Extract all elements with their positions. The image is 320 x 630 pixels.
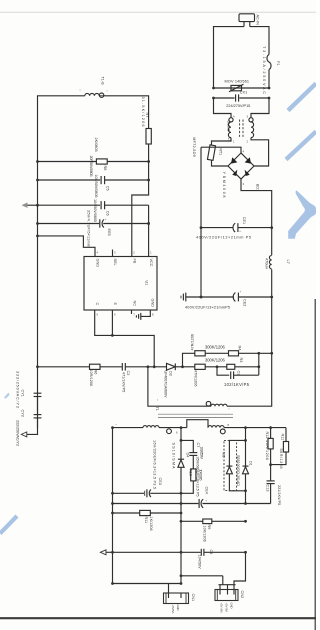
capacitor EE5 row bbox=[36, 210, 150, 247]
svg-text:AC-IN: AC-IN bbox=[256, 15, 260, 26]
svg-text:SEL: SEL bbox=[113, 259, 117, 266]
watermark blue diagonal bottom-left bbox=[0, 516, 17, 534]
svg-text:6: 6 bbox=[176, 431, 178, 435]
wire D4 branch bbox=[180, 428, 182, 460]
connector CN1 bbox=[164, 584, 196, 614]
ground pin8 bbox=[136, 310, 150, 320]
svg-text:UF4007/1A/600V: UF4007/1A/600V bbox=[163, 371, 167, 398]
watermark blue wedge small bbox=[4, 393, 10, 399]
wire DC left bus bbox=[200, 147, 202, 297]
wire switch row bbox=[36, 365, 89, 368]
svg-text:CE2: CE2 bbox=[243, 299, 247, 306]
connector AC plug bbox=[239, 14, 260, 27]
capacitor C2 bbox=[122, 363, 167, 392]
wire plug right to fuse bbox=[250, 27, 269, 55]
wire N rail down to choke bbox=[251, 98, 269, 118]
svg-text:SB5100/DO-201AD: SB5100/DO-201AD bbox=[236, 455, 240, 486]
svg-text:GND: GND bbox=[176, 605, 180, 611]
svg-text:400V/22UF/12×21mm P5: 400V/22UF/12×21mm P5 bbox=[196, 236, 251, 240]
svg-text:F1: F1 bbox=[276, 61, 280, 65]
resistor R8 row bbox=[38, 138, 149, 177]
svg-text:300K/1206: 300K/1206 bbox=[205, 357, 226, 362]
svg-text:D4: D4 bbox=[185, 453, 189, 458]
svg-text:NC: NC bbox=[132, 301, 136, 307]
page top rule bbox=[0, 11, 316, 13]
bridge rectifier BD1 bbox=[222, 150, 259, 198]
transformer T1 secondary winding bbox=[113, 420, 287, 435]
resistor R11 56R branch bbox=[269, 428, 288, 469]
svg-text:RT1: RT1 bbox=[219, 148, 223, 155]
page right edge rule bbox=[314, 299, 316, 630]
ground arrow control bbox=[22, 203, 38, 208]
wire fuse to MOV row bbox=[268, 70, 270, 89]
wire right rail to primary bbox=[227, 297, 272, 406]
capacitor CX1 row bbox=[212, 91, 270, 108]
svg-text:NC: NC bbox=[221, 452, 225, 458]
svg-text:2: 2 bbox=[247, 140, 249, 144]
transformer T1-B aux winding bbox=[80, 77, 108, 98]
svg-text:*: * bbox=[80, 89, 81, 93]
svg-text:C7: C7 bbox=[196, 443, 200, 448]
svg-text:56R/1206: 56R/1206 bbox=[279, 449, 283, 469]
svg-text:E: E bbox=[113, 303, 117, 306]
svg-text:4: 4 bbox=[233, 115, 235, 119]
wire CN2 feeds bbox=[180, 552, 246, 589]
svg-text:+: + bbox=[205, 500, 207, 503]
connector CN2 bbox=[215, 590, 244, 614]
svg-text:1: 1 bbox=[233, 140, 235, 144]
watermark blue diagonal 1 bbox=[288, 84, 316, 111]
svg-text:CE1: CE1 bbox=[242, 217, 246, 224]
svg-text:+: + bbox=[105, 218, 107, 221]
svg-text:25V/4.7UF/5×11mm: 25V/4.7UF/5×11mm bbox=[86, 210, 90, 247]
svg-text:8: 8 bbox=[152, 313, 154, 317]
page bottom rule bbox=[0, 617, 316, 619]
svg-text:CE4: CE4 bbox=[205, 487, 209, 494]
thermistor RT1 bbox=[192, 137, 222, 160]
svg-text:CE3: CE3 bbox=[158, 478, 162, 485]
wire RT1 to bridge left corner bbox=[212, 160, 229, 166]
wire aux right to R7 bbox=[104, 96, 149, 129]
svg-text:3: 3 bbox=[247, 115, 249, 119]
svg-text:GND: GND bbox=[230, 603, 234, 609]
svg-text:47R/1206: 47R/1206 bbox=[191, 334, 195, 350]
svg-text:104/50V/0805: 104/50V/0805 bbox=[94, 175, 98, 198]
pin7 NC stub bbox=[131, 310, 133, 314]
diode D4 bbox=[172, 443, 190, 584]
svg-text:MF72-5D9: MF72-5D9 bbox=[192, 137, 196, 157]
svg-text:MOV 14D561: MOV 14D561 bbox=[225, 79, 250, 83]
ground arrow output + capacitor C4 row bbox=[100, 549, 247, 569]
resistor R11 1K row bbox=[111, 510, 182, 530]
capacitor CE1 row bbox=[196, 217, 273, 240]
transformer T1 core bbox=[158, 413, 233, 415]
svg-text:222/250VAC/Y2: 222/250VAC/Y2 bbox=[15, 420, 19, 446]
capacitor C6 row bbox=[36, 199, 149, 222]
svg-text:35V/680UF/10×13.5 P5: 35V/680UF/10×13.5 P5 bbox=[195, 457, 199, 497]
resistor R7 bbox=[141, 97, 151, 145]
svg-text:R12: R12 bbox=[265, 432, 269, 439]
node secondary rail junctions bbox=[111, 426, 272, 429]
svg-text:16V/220UF/6.3×13.5 P3.5: 16V/220UF/6.3×13.5 P3.5 bbox=[153, 440, 157, 489]
wire aux left to left bus bbox=[38, 96, 85, 428]
svg-text:*: * bbox=[157, 399, 158, 403]
svg-text:+5V/5A: +5V/5A bbox=[171, 605, 175, 614]
svg-text:D1: D1 bbox=[249, 461, 253, 466]
svg-text:6: 6 bbox=[114, 313, 116, 317]
capacitor CE4 row bbox=[111, 457, 271, 509]
wire choke left bottom to RT1 bbox=[212, 138, 232, 145]
svg-text:4: 4 bbox=[97, 251, 99, 255]
svg-text:400V/22UF/13×21mmP5: 400V/22UF/13×21mmP5 bbox=[185, 305, 230, 309]
node row1 junctions bbox=[36, 160, 39, 163]
svg-text:YBM4008: YBM4008 bbox=[222, 172, 226, 198]
svg-text:C: C bbox=[95, 303, 99, 306]
capacitor C13 bbox=[265, 465, 281, 506]
svg-text:*: * bbox=[116, 423, 117, 427]
wire choke right bottom to bridge right corner bbox=[251, 138, 269, 166]
svg-text:R11: R11 bbox=[144, 517, 148, 524]
capacitor C5 row bbox=[36, 175, 150, 198]
svg-text:471/1KV/P5: 471/1KV/P5 bbox=[122, 372, 126, 392]
svg-text:+: + bbox=[240, 290, 242, 293]
svg-text:R4: R4 bbox=[238, 346, 242, 351]
svg-text:CX1: CX1 bbox=[240, 91, 247, 95]
svg-text:224/275V/P15: 224/275V/P15 bbox=[226, 104, 250, 108]
svg-text:5: 5 bbox=[97, 313, 99, 317]
capacitor CE3 row bbox=[111, 440, 182, 497]
svg-text:1K/1206: 1K/1206 bbox=[149, 517, 153, 531]
svg-text:R7: R7 bbox=[145, 113, 149, 118]
svg-text:CN1: CN1 bbox=[191, 594, 195, 602]
svg-text:1: 1 bbox=[150, 251, 152, 255]
capacitor C7 + resistor R10 snubber bbox=[181, 440, 204, 493]
svg-text:10R/1206: 10R/1206 bbox=[89, 370, 93, 386]
watermark blue diagonal 2 bbox=[286, 132, 316, 160]
IC U1 bbox=[84, 250, 157, 317]
svg-text:470uH: 470uH bbox=[264, 258, 268, 269]
svg-text:C13: C13 bbox=[265, 485, 269, 492]
svg-text:U1: U1 bbox=[145, 281, 149, 286]
resistor R6 bbox=[89, 364, 122, 386]
capacitor CY1 CY2 chain bbox=[15, 371, 41, 446]
svg-text:56R/1206: 56R/1206 bbox=[265, 440, 269, 460]
svg-text:3: 3 bbox=[114, 251, 116, 255]
svg-text:300K/1206: 300K/1206 bbox=[205, 345, 226, 350]
svg-text:C6: C6 bbox=[105, 211, 109, 216]
svg-text:UU9.8: UU9.8 bbox=[227, 121, 231, 132]
svg-text:2: 2 bbox=[133, 251, 135, 255]
svg-text:3: 3 bbox=[243, 182, 245, 186]
svg-text:C2: C2 bbox=[126, 371, 130, 376]
svg-text:*: * bbox=[229, 408, 230, 412]
svg-text:104/50V: 104/50V bbox=[198, 555, 202, 570]
watermark blue chevron bbox=[288, 190, 316, 239]
wire to primary left bbox=[148, 367, 211, 406]
inductor L1 common-mode choke bbox=[227, 115, 254, 144]
resistor R9 10K row bbox=[180, 519, 247, 542]
wire L rail down to choke bbox=[214, 98, 232, 118]
svg-text:31.5K/1206: 31.5K/1206 bbox=[141, 97, 145, 127]
svg-text:D2: D2 bbox=[169, 371, 173, 376]
node snubber-rail junction bbox=[270, 352, 273, 355]
diode D2 bbox=[163, 363, 184, 398]
svg-text:C4: C4 bbox=[209, 550, 213, 555]
snubber bottom branch R3 C3 bbox=[183, 353, 261, 387]
svg-text:L7: L7 bbox=[286, 260, 290, 264]
svg-text:R10: R10 bbox=[189, 469, 193, 476]
node switch row junctions bbox=[147, 365, 150, 368]
transformer T1 primary winding bbox=[155, 399, 230, 412]
wire bridge bottom corner to right rail bbox=[241, 179, 272, 228]
zener clamp D5 D1 bbox=[221, 428, 252, 504]
svg-text:+: + bbox=[239, 230, 241, 233]
svg-text:102/1KV/P5: 102/1KV/P5 bbox=[224, 382, 250, 387]
wire pin5 pin6 to switch node bbox=[95, 310, 155, 367]
svg-text:221/1KV/P5: 221/1KV/P5 bbox=[277, 485, 281, 505]
wire R7 to FB net bbox=[132, 144, 149, 257]
inductor L7 on right rail bbox=[264, 228, 290, 297]
svg-text:CY1: CY1 bbox=[21, 390, 25, 397]
svg-text:333/250VAC/Y2: 333/250VAC/Y2 bbox=[15, 371, 19, 408]
svg-text:*: * bbox=[107, 90, 108, 94]
svg-text:104/50V/0805: 104/50V/0805 bbox=[93, 199, 97, 222]
svg-text:+5V+/5A: +5V+/5A bbox=[220, 603, 224, 614]
resistor R12 branch bbox=[265, 428, 273, 465]
svg-text:7: 7 bbox=[133, 313, 135, 317]
svg-text:C3: C3 bbox=[236, 371, 240, 376]
wire output left rail bbox=[112, 428, 114, 584]
svg-text:FB: FB bbox=[132, 259, 136, 264]
svg-text:CN2: CN2 bbox=[240, 591, 244, 599]
svg-text:R8: R8 bbox=[103, 166, 107, 171]
svg-text:C5: C5 bbox=[105, 186, 109, 191]
wire VCC chain bbox=[148, 205, 150, 256]
svg-text:GND: GND bbox=[96, 259, 100, 268]
svg-text:GND: GND bbox=[151, 299, 155, 308]
svg-text:10K/1206: 10K/1206 bbox=[203, 526, 207, 542]
wire plug left to L rail bbox=[214, 27, 245, 88]
varistor MOV row bbox=[212, 79, 270, 92]
svg-text:47R/1206: 47R/1206 bbox=[193, 370, 197, 386]
svg-text:20P/50V/0805: 20P/50V/0805 bbox=[89, 156, 93, 177]
svg-text:CY2: CY2 bbox=[21, 410, 25, 417]
wire bottom rail bbox=[111, 582, 182, 585]
svg-text:EE5: EE5 bbox=[107, 229, 111, 236]
svg-text:R3: R3 bbox=[239, 358, 243, 363]
wire bus to pin4 GND bbox=[38, 236, 96, 257]
snubber top branch R5 R4 bbox=[183, 334, 272, 367]
svg-text:2K/0805: 2K/0805 bbox=[94, 138, 98, 152]
svg-text:T1-B: T1-B bbox=[101, 77, 105, 86]
svg-text:4: 4 bbox=[243, 150, 245, 154]
svg-text:8: 8 bbox=[228, 423, 230, 427]
capacitor CE2 row bbox=[181, 290, 273, 309]
svg-text:T3.15A/250VAC: T3.15A/250VAC bbox=[262, 46, 266, 94]
svg-text:SS16/SMA: SS16/SMA bbox=[172, 443, 176, 469]
svg-text:+5V-/5A: +5V-/5A bbox=[225, 603, 229, 613]
fuse F1 bbox=[262, 46, 280, 94]
svg-text:VCC: VCC bbox=[149, 259, 153, 267]
wire bridge top corner to DC bus bbox=[201, 147, 241, 153]
svg-text:R11: R11 bbox=[280, 434, 284, 441]
svg-text:T1: T1 bbox=[155, 407, 159, 411]
